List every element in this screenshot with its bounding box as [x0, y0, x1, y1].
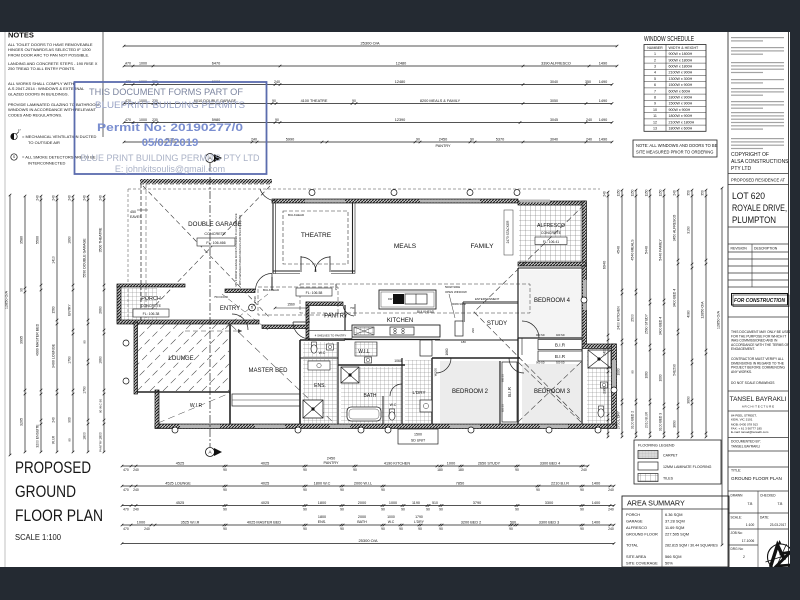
svg-text:2: 2	[654, 58, 656, 62]
svg-text:A: A	[208, 450, 211, 455]
svg-text:4540 MEALS: 4540 MEALS	[631, 239, 635, 261]
svg-text:50%: 50%	[665, 561, 673, 566]
svg-text:4900 MASTER BED: 4900 MASTER BED	[36, 323, 40, 356]
svg-text:FLOORING LEGEND: FLOORING LEGEND	[638, 444, 675, 448]
svg-text:5: 5	[654, 77, 656, 81]
svg-text:1800: 1800	[99, 432, 103, 440]
svg-text:3300 BED 3: 3300 BED 3	[539, 520, 559, 524]
svg-text:GROUND FLOOR PLAN: GROUND FLOOR PLAN	[731, 476, 782, 481]
svg-text:90: 90	[223, 527, 227, 531]
svg-text:90: 90	[580, 527, 584, 531]
svg-text:240: 240	[99, 195, 103, 201]
svg-text:600W x 1800H: 600W x 1800H	[669, 65, 693, 69]
svg-text:BULKHEAD: BULKHEAD	[288, 213, 305, 217]
svg-text:240: 240	[68, 195, 72, 201]
svg-text:1560: 1560	[52, 306, 56, 313]
svg-text:90: 90	[303, 488, 307, 492]
svg-text:REVISION: REVISION	[731, 247, 748, 251]
svg-text:TOTAL: TOTAL	[626, 543, 639, 548]
svg-text:3045: 3045	[550, 118, 558, 122]
svg-text:3400 LOUNGE: 3400 LOUNGE	[52, 343, 56, 368]
svg-text:13: 13	[653, 127, 657, 131]
svg-text:900: 900	[68, 417, 72, 423]
svg-text:10: 10	[653, 108, 657, 112]
svg-text:SCALE 1:100: SCALE 1:100	[15, 532, 61, 542]
svg-text:BEDROOM 3: BEDROOM 3	[534, 389, 571, 395]
svg-text:12850 O/A: 12850 O/A	[5, 290, 9, 309]
svg-text:900W x 900H: 900W x 900H	[669, 108, 691, 112]
svg-text:4025: 4025	[261, 501, 269, 505]
svg-text:PORCH: PORCH	[141, 296, 161, 302]
svg-text:PANTRY: PANTRY	[435, 144, 451, 148]
svg-text:23-03-2017: 23-03-2017	[770, 523, 787, 527]
svg-text:12850 O/A: 12850 O/A	[701, 301, 705, 319]
svg-text:1150: 1150	[645, 189, 649, 196]
svg-text:B.I.R: B.I.R	[507, 387, 512, 397]
svg-text:DOCUMENTED BY:: DOCUMENTED BY:	[731, 440, 761, 444]
svg-text:1800: 1800	[318, 515, 326, 519]
svg-text:2390: 2390	[603, 386, 607, 394]
svg-text:1560: 1560	[287, 303, 295, 307]
svg-text:90: 90	[515, 508, 519, 512]
svg-text:240: 240	[83, 195, 87, 201]
svg-text:BEDROOM 2: BEDROOM 2	[452, 389, 489, 395]
svg-text:240: 240	[586, 118, 592, 122]
svg-text:W.I.R: W.I.R	[52, 435, 56, 444]
svg-text:240: 240	[608, 488, 614, 492]
svg-text:2400 KITCHEN: 2400 KITCHEN	[617, 306, 621, 330]
svg-text:920 SD: 920 SD	[556, 333, 565, 337]
svg-text:1000: 1000	[659, 374, 663, 381]
svg-text:1660: 1660	[99, 356, 103, 364]
svg-text:5590 DOUBLE GARAGE: 5590 DOUBLE GARAGE	[83, 238, 87, 278]
svg-text:3400 BED 4: 3400 BED 4	[659, 317, 663, 335]
svg-text:SCALE:: SCALE:	[731, 516, 742, 520]
svg-text:1150: 1150	[617, 189, 621, 196]
svg-text:GROUND: GROUND	[15, 482, 76, 501]
svg-text:3190: 3190	[687, 226, 691, 234]
svg-text:1790: 1790	[415, 515, 423, 519]
svg-text:90: 90	[580, 508, 584, 512]
svg-text:2660: 2660	[99, 306, 103, 314]
svg-text:1400: 1400	[592, 501, 600, 505]
svg-text:4: 4	[654, 71, 656, 75]
svg-text:GLAZED DOORS IN BUILDINGS.: GLAZED DOORS IN BUILDINGS.	[8, 91, 69, 96]
svg-text:W.I.R: W.I.R	[190, 403, 203, 409]
svg-text:FROM DOOR ARC TO PAN NOT POSSI: FROM DOOR ARC TO PAN NOT POSSIBLE.	[8, 52, 89, 57]
svg-text:SD UNIT: SD UNIT	[411, 439, 426, 443]
svg-text:3200 BED 2: 3200 BED 2	[461, 520, 481, 524]
svg-text:DW: DW	[388, 297, 393, 301]
svg-text:1060: 1060	[645, 371, 649, 378]
svg-text:3525 W.I.R: 3525 W.I.R	[181, 520, 200, 524]
svg-text:2000: 2000	[358, 501, 366, 505]
svg-text:1500W x 900H: 1500W x 900H	[669, 102, 693, 106]
svg-text:WINDOW SCHEDULE: WINDOW SCHEDULE	[644, 36, 694, 43]
svg-text:25300 O/A: 25300 O/A	[358, 538, 377, 543]
svg-text:5990: 5990	[286, 137, 294, 141]
svg-text:MEALS: MEALS	[394, 243, 417, 250]
svg-text:240: 240	[36, 195, 40, 201]
svg-text:5440: 5440	[645, 246, 649, 254]
svg-text:L'DRY: L'DRY	[414, 520, 425, 524]
svg-text:227.505 SQM: 227.505 SQM	[665, 532, 689, 537]
svg-text:B.I.R: B.I.R	[555, 354, 566, 359]
svg-text:1800: 1800	[318, 501, 326, 505]
svg-text:90: 90	[352, 99, 356, 103]
svg-text:INTERCONNECTED: INTERCONNECTED	[28, 161, 65, 166]
svg-text:90: 90	[631, 370, 635, 374]
svg-text:90: 90	[439, 527, 443, 531]
svg-text:SITE COVERAGE: SITE COVERAGE	[626, 561, 658, 566]
svg-text:MASTER BED: MASTER BED	[248, 368, 288, 374]
svg-text:620 SD: 620 SD	[502, 404, 505, 412]
svg-text:BLUE PRINT BUILDING PERMITS PT: BLUE PRINT BUILDING PERMITS PTY LTD	[80, 153, 260, 163]
svg-text:PTY LTD: PTY LTD	[731, 166, 751, 172]
svg-text:WIDTH & HEIGHT: WIDTH & HEIGHT	[669, 46, 700, 50]
svg-text:1790: 1790	[253, 296, 257, 303]
svg-text:GARAGE: GARAGE	[626, 519, 643, 524]
svg-text:PANTRY: PANTRY	[99, 440, 103, 452]
svg-text:1690: 1690	[68, 236, 72, 244]
svg-text:BLUEPRINT BUILDING PERMITS: BLUEPRINT BUILDING PERMITS	[95, 100, 245, 110]
svg-text:3300 BED 4: 3300 BED 4	[540, 461, 560, 465]
svg-text:90: 90	[439, 508, 443, 512]
svg-text:1060: 1060	[394, 359, 402, 363]
svg-text:90: 90	[580, 488, 584, 492]
svg-text:240: 240	[144, 527, 150, 531]
svg-text:T.B: T.B	[778, 502, 784, 506]
svg-text:2473 STACKER: 2473 STACKER	[506, 220, 510, 243]
svg-text:1000: 1000	[447, 461, 455, 465]
svg-text:1800W x 600H: 1800W x 600H	[669, 127, 693, 131]
svg-text:AREA SUMMARY: AREA SUMMARY	[627, 499, 685, 508]
svg-text:A R C H I T E C T U R E: A R C H I T E C T U R E	[742, 405, 774, 409]
svg-text:17-1006: 17-1006	[742, 539, 755, 543]
svg-text:3200 ENSUITE: 3200 ENSUITE	[36, 424, 40, 448]
svg-text:TANSEL BAYRAKLI: TANSEL BAYRAKLI	[731, 445, 760, 449]
svg-text:90: 90	[399, 527, 403, 531]
svg-text:FLOOR PLAN: FLOOR PLAN	[15, 506, 103, 525]
svg-text:FL: 106.41: FL: 106.41	[543, 240, 559, 244]
svg-text:11: 11	[653, 114, 657, 118]
svg-text:90: 90	[470, 137, 474, 141]
svg-text:ENS.: ENS.	[314, 383, 326, 389]
svg-text:90: 90	[20, 288, 24, 292]
svg-text:240: 240	[603, 191, 607, 197]
svg-text:THIS DOCUMENT FORMS PART OF: THIS DOCUMENT FORMS PART OF	[89, 87, 243, 97]
svg-text:3040: 3040	[550, 137, 558, 141]
svg-text:90: 90	[340, 508, 344, 512]
svg-text:500W 900H: 500W 900H	[445, 285, 460, 289]
svg-text:3580: 3580	[20, 236, 24, 244]
svg-text:1490: 1490	[599, 99, 607, 103]
svg-text:JOB No:: JOB No:	[731, 531, 743, 535]
svg-text:37.28 SQM: 37.28 SQM	[665, 519, 685, 524]
svg-text:3400 BED 4: 3400 BED 4	[673, 289, 677, 307]
svg-text:3790: 3790	[473, 501, 481, 505]
svg-text:7850: 7850	[456, 481, 464, 485]
svg-text:900W 900H: 900W 900H	[452, 302, 466, 306]
svg-text:350: 350	[701, 190, 705, 196]
svg-text:3450 ALFRESCO: 3450 ALFRESCO	[673, 214, 677, 241]
svg-text:TILES: TILES	[663, 477, 674, 481]
svg-text:2450: 2450	[327, 457, 335, 461]
svg-text:90: 90	[401, 508, 405, 512]
svg-text:W.C: W.C	[390, 403, 397, 407]
svg-text:1800: 1800	[83, 432, 87, 440]
svg-text:9: 9	[654, 102, 656, 106]
svg-text:1800W x 900H: 1800W x 900H	[669, 114, 693, 118]
svg-text:90: 90	[303, 527, 307, 531]
svg-text:1560: 1560	[334, 283, 338, 290]
svg-text:1: 1	[654, 52, 656, 56]
svg-text:180: 180	[458, 468, 464, 472]
svg-text:1150: 1150	[631, 189, 635, 196]
svg-text:250 TREAD TO ALL ENTRY POINTS.: 250 TREAD TO ALL ENTRY POINTS.	[8, 66, 75, 71]
svg-text:1000: 1000	[137, 520, 145, 524]
svg-text:3050: 3050	[550, 99, 558, 103]
svg-text:90: 90	[275, 118, 279, 122]
svg-text:ALFRESCO: ALFRESCO	[537, 223, 565, 229]
svg-text:ENGAGEMENT.: ENGAGEMENT.	[731, 347, 755, 351]
svg-text:180: 180	[437, 468, 443, 472]
svg-text:12390: 12390	[395, 118, 406, 122]
svg-text:PROPOSED: PROPOSED	[15, 458, 91, 477]
svg-text:Permit No: 20190277/0: Permit No: 20190277/0	[97, 122, 243, 134]
svg-text:2700 L'DRY: 2700 L'DRY	[617, 410, 621, 429]
svg-text:240: 240	[608, 508, 614, 512]
svg-text:12850 O/A: 12850 O/A	[717, 310, 721, 329]
svg-text:TANSEL BAYRAKLI: TANSEL BAYRAKLI	[730, 396, 787, 403]
svg-text:6: 6	[654, 83, 656, 87]
svg-text:90: 90	[303, 508, 307, 512]
svg-text:90: 90	[83, 340, 87, 344]
svg-text:ROYALE DRIVE,: ROYALE DRIVE,	[732, 203, 787, 214]
svg-text:05/02/2019: 05/02/2019	[142, 137, 199, 149]
svg-text:510: 510	[432, 501, 438, 505]
svg-text:1490: 1490	[599, 61, 607, 65]
svg-text:1300W x 300H: 1300W x 300H	[669, 77, 693, 81]
svg-text:282.815 SQM / 30.44 SQUARES: 282.815 SQM / 30.44 SQUARES	[665, 544, 718, 548]
svg-text:900W x 1800H: 900W x 1800H	[669, 52, 693, 56]
svg-text:4025: 4025	[261, 481, 269, 485]
svg-text:12480: 12480	[396, 61, 407, 65]
svg-text:900 SD: 900 SD	[536, 361, 545, 365]
svg-text:5440 FAMILY: 5440 FAMILY	[659, 239, 663, 261]
svg-text:COPYRIGHT OF: COPYRIGHT OF	[731, 152, 769, 158]
svg-text:90 W.C 90: 90 W.C 90	[99, 399, 103, 413]
svg-text:8: 8	[654, 96, 656, 100]
svg-text:LOT 620: LOT 620	[732, 191, 765, 202]
svg-text:STUDY: STUDY	[487, 321, 507, 327]
svg-text:ENTRY: ENTRY	[68, 304, 72, 316]
svg-text:3: 3	[654, 65, 656, 69]
svg-text:4525 LOUNGE: 4525 LOUNGE	[165, 481, 191, 485]
svg-text:1800 W.C: 1800 W.C	[314, 481, 331, 485]
svg-text:470: 470	[123, 468, 129, 472]
svg-text:1660: 1660	[445, 348, 449, 355]
svg-text:E: johnkitsoulis@gmail.com: E: johnkitsoulis@gmail.com	[115, 164, 225, 174]
svg-text:SITE MEASURED PRIOR TO ORDERIN: SITE MEASURED PRIOR TO ORDERING	[636, 150, 713, 155]
svg-text:PROPOSED RESIDENCE AT: PROPOSED RESIDENCE AT	[731, 178, 785, 183]
svg-text:90: 90	[340, 488, 344, 492]
svg-text:12: 12	[653, 120, 657, 124]
svg-text:5370: 5370	[496, 137, 504, 141]
svg-text:= MECHANICAL VENTILATION DUCT: = MECHANICAL VENTILATION DUCTED	[22, 134, 96, 139]
svg-text:600W x 600H: 600W x 600H	[669, 89, 691, 93]
svg-text:1000: 1000	[387, 515, 395, 519]
svg-text:11.69 SQM: 11.69 SQM	[665, 525, 684, 530]
svg-text:1410: 1410	[52, 256, 56, 264]
svg-text:12480: 12480	[395, 80, 406, 84]
svg-text:L'DRY: L'DRY	[412, 390, 425, 395]
svg-text:7: 7	[654, 89, 656, 93]
svg-text:2000: 2000	[358, 515, 366, 519]
svg-text:TITLE:: TITLE:	[731, 469, 741, 473]
svg-text:90: 90	[418, 527, 422, 531]
svg-text:900W x 1800H: 900W x 1800H	[669, 58, 693, 62]
svg-text:DESCRIPTION: DESCRIPTION	[754, 247, 778, 251]
svg-text:4100 THEATRE: 4100 THEATRE	[301, 99, 328, 103]
svg-text:EAVES: EAVES	[130, 215, 142, 219]
svg-text:90: 90	[509, 527, 513, 531]
svg-text:90: 90	[381, 508, 385, 512]
svg-text:1490: 1490	[599, 118, 607, 122]
svg-text:CODES AND REGULATIONS.: CODES AND REGULATIONS.	[8, 112, 62, 117]
svg-text:CONCRETE: CONCRETE	[141, 304, 162, 308]
svg-text:2010 B.I.R: 2010 B.I.R	[645, 411, 649, 428]
svg-text:2210 B.I.R: 2210 B.I.R	[551, 481, 569, 485]
svg-text:1150: 1150	[659, 189, 663, 196]
svg-text:750: 750	[350, 306, 355, 310]
svg-text:25300 O/A: 25300 O/A	[360, 40, 379, 45]
svg-text:3995: 3995	[20, 336, 24, 344]
svg-text:240: 240	[133, 468, 139, 472]
svg-text:2500: 2500	[631, 314, 635, 322]
svg-text:W.C: W.C	[388, 520, 395, 524]
svg-text:90: 90	[416, 137, 420, 141]
svg-text:4540: 4540	[617, 246, 621, 254]
svg-text:OPEN WINDOW: OPEN WINDOW	[445, 290, 467, 294]
svg-text:90: 90	[340, 527, 344, 531]
svg-text:4025 MASTER BED: 4025 MASTER BED	[247, 520, 281, 524]
svg-text:ANY WORKS.: ANY WORKS.	[731, 370, 752, 374]
svg-text:PORCH: PORCH	[626, 512, 640, 517]
svg-text:NOTE: ALL WINDOWS AND DOORS TO: NOTE: ALL WINDOWS AND DOORS TO BE	[636, 143, 718, 148]
svg-text:290: 290	[471, 328, 475, 333]
svg-text:BATH: BATH	[364, 393, 377, 399]
svg-text:THEATRE: THEATRE	[301, 232, 332, 239]
svg-text:3300: 3300	[545, 501, 553, 505]
svg-text:TO OUTSIDE AIR: TO OUTSIDE AIR	[28, 140, 60, 145]
svg-text:CHECKED: CHECKED	[760, 494, 776, 498]
svg-text:90: 90	[381, 488, 385, 492]
svg-text:3040: 3040	[550, 80, 558, 84]
svg-text:BATH: BATH	[357, 520, 367, 524]
svg-text:WOOD: WOOD	[434, 368, 438, 376]
svg-text:ALFRESCO: ALFRESCO	[626, 525, 647, 530]
svg-text:240: 240	[586, 137, 592, 141]
svg-text:DATE:: DATE:	[760, 516, 769, 520]
svg-text:SITE AREA: SITE AREA	[626, 554, 647, 559]
svg-text:1790: 1790	[83, 386, 87, 394]
svg-text:1190: 1190	[412, 501, 420, 505]
svg-text:ALSA CONSTRUCTIONS: ALSA CONSTRUCTIONS	[731, 159, 789, 165]
svg-text:LOUNGE: LOUNGE	[168, 356, 193, 362]
svg-text:920 SD: 920 SD	[556, 361, 565, 365]
svg-text:4025: 4025	[261, 461, 269, 465]
svg-text:3390 ALFRESCO: 3390 ALFRESCO	[541, 61, 571, 65]
svg-text:450: 450	[130, 210, 136, 214]
svg-text:CONCRETE: CONCRETE	[204, 232, 226, 236]
svg-text:B.I.R: B.I.R	[555, 343, 566, 348]
svg-text:12MM LAMINATE FLOORING: 12MM LAMINATE FLOORING	[663, 465, 712, 469]
svg-text:900 SD: 900 SD	[536, 333, 545, 337]
svg-text:1500: 1500	[414, 433, 422, 437]
svg-text:GROUND FLOOR: GROUND FLOOR	[626, 532, 658, 537]
svg-text:1400: 1400	[592, 481, 600, 485]
svg-text:FL: 106.466: FL: 106.466	[206, 241, 225, 245]
svg-text:2000 W.I.L: 2000 W.I.L	[354, 481, 372, 485]
svg-text:1000: 1000	[617, 368, 621, 375]
svg-text:FOR CONSTRUCTION: FOR CONSTRUCTION	[734, 298, 786, 304]
svg-text:1800W x 900H: 1800W x 900H	[669, 96, 693, 100]
svg-text:PLUMPTON: PLUMPTON	[732, 215, 776, 226]
svg-text:350: 350	[585, 80, 591, 84]
svg-text:3100 BED 2: 3100 BED 2	[631, 411, 635, 429]
svg-text:6.36 SQM: 6.36 SQM	[665, 512, 683, 517]
svg-text:3690: 3690	[673, 420, 677, 428]
svg-text:DRAWN: DRAWN	[731, 494, 744, 498]
svg-text:FAMILY: FAMILY	[471, 243, 495, 250]
svg-text:E-mail: tansel@tanselb.com: E-mail: tansel@tanselb.com	[731, 430, 769, 434]
svg-text:1500W x 900H: 1500W x 900H	[669, 83, 693, 87]
svg-text:KEW, VIC 3101: KEW, VIC 3101	[731, 418, 753, 422]
svg-text:2100W x 900H: 2100W x 900H	[669, 71, 693, 75]
svg-text:2650 STUDY: 2650 STUDY	[478, 461, 501, 465]
svg-text:240: 240	[133, 508, 139, 512]
svg-text:240: 240	[52, 417, 56, 423]
svg-text:240: 240	[274, 80, 280, 84]
svg-text:ENTERTAINMENT: ENTERTAINMENT	[475, 297, 500, 301]
svg-text:500: 500	[510, 520, 516, 524]
svg-text:T.B: T.B	[748, 502, 754, 506]
svg-text:ENTRY: ENTRY	[220, 306, 240, 312]
svg-text:2590 STUDY: 2590 STUDY	[645, 313, 649, 334]
svg-text:240: 240	[581, 468, 587, 472]
svg-text:350: 350	[687, 190, 691, 196]
svg-text:470: 470	[125, 61, 131, 65]
svg-text:1400: 1400	[603, 348, 607, 356]
svg-text:W.C: W.C	[319, 351, 326, 355]
svg-text:ENS.: ENS.	[318, 520, 327, 524]
svg-text:CARPET: CARPET	[663, 454, 678, 458]
svg-text:FL: 106.58: FL: 106.58	[306, 291, 323, 295]
svg-text:90: 90	[303, 468, 307, 472]
svg-text:180: 180	[461, 340, 466, 344]
svg-text:240: 240	[251, 137, 257, 141]
svg-text:8200 MEALS & FAMILY: 8200 MEALS & FAMILY	[420, 99, 461, 103]
svg-text:90: 90	[223, 488, 227, 492]
svg-text:4525: 4525	[176, 461, 184, 465]
svg-text:DOUBLE GARAGE: DOUBLE GARAGE	[188, 221, 242, 228]
svg-text:6470: 6470	[212, 61, 220, 65]
svg-text:90: 90	[381, 527, 385, 531]
svg-text:1790: 1790	[68, 356, 72, 364]
svg-text:90: 90	[272, 99, 276, 103]
svg-text:470: 470	[123, 488, 129, 492]
